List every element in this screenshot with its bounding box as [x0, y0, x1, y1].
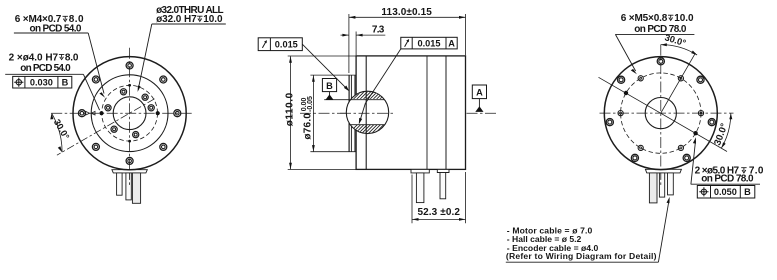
svg-text:on PCD 54.0: on PCD 54.0 [20, 63, 71, 74]
svg-text:6 ×M5×0.8: 6 ×M5×0.8 [621, 13, 668, 24]
label 2xdia4 leader [83, 74, 99, 110]
counterbore hole right view 40deg [697, 76, 704, 83]
M5 hole right view 180deg [618, 111, 623, 116]
diagonal through dowels 150-330 [599, 77, 728, 151]
junction dots on dashed circle top/bottom [128, 84, 131, 87]
underline second label [5, 73, 83, 75]
boss step lines [351, 75, 355, 151]
counterbore hole right view 90deg [657, 58, 664, 65]
underline note [506, 261, 659, 263]
counterbore hole right view 240deg [631, 154, 638, 161]
label dia32 leader [139, 24, 152, 87]
M5 hole right view 120deg [638, 76, 643, 81]
PCD78 dashed circle right view [621, 73, 701, 153]
cable gland plate right view [645, 169, 681, 173]
svg-text:on PCD 78.0: on PCD 78.0 [634, 24, 687, 35]
centerline horizontal middle view [300, 112, 497, 114]
boss circle dia76 left view [91, 75, 168, 152]
svg-text:ø32.0 H7: ø32.0 H7 [156, 14, 197, 25]
encoder cable middle view [440, 173, 446, 199]
centerline horizontal left view [51, 112, 193, 114]
hall cable left view [117, 173, 123, 195]
datum B [322, 79, 336, 100]
svg-text:52.3 ±0.2: 52.3 ±0.2 [417, 207, 460, 218]
svg-text:8.0: 8.0 [65, 52, 79, 63]
svg-text:A: A [476, 88, 483, 98]
centerline vertical left view [129, 48, 131, 187]
extension lines 113 dim [349, 14, 466, 73]
counterbore hole left view 135deg [92, 76, 99, 83]
svg-text:0.030: 0.030 [30, 78, 53, 88]
svg-text:ø76.0: ø76.0 [303, 113, 314, 140]
encoder cable right view [659, 173, 664, 197]
svg-text:A: A [448, 38, 455, 48]
svg-text:10.0: 10.0 [674, 13, 694, 24]
angular dimension arc 30deg left view [52, 113, 63, 152]
centerline horizontal right view [600, 112, 734, 114]
svg-text:0.050: 0.050 [714, 187, 737, 197]
underline top right label [615, 33, 694, 35]
M5 hole right view 240deg [638, 145, 643, 150]
label 6xM4 leader [88, 33, 104, 94]
counterbore hole right view -60deg [683, 154, 690, 161]
housing joint line 2 [445, 56, 447, 169]
radial 60deg [661, 53, 696, 113]
bore circle right view [645, 98, 676, 129]
bore bottom line [350, 124, 385, 126]
datum A [472, 85, 486, 112]
centerline segment over left cables [129, 173, 131, 187]
open arrowheads near left dowel [86, 111, 90, 115]
centerline segment over right cables [660, 173, 662, 186]
svg-text:B: B [62, 78, 69, 88]
boss front face line dia76 [348, 75, 350, 151]
body outline middle view [356, 56, 465, 169]
counterbore hole left view 45deg [160, 76, 167, 83]
svg-text:0.015: 0.015 [418, 38, 441, 48]
encoder cable left view [126, 173, 131, 200]
cable gland plate middle view [411, 169, 429, 173]
M4 hole left view 166deg [105, 105, 111, 111]
hall cable right view [649, 173, 657, 203]
svg-text:ø110.0: ø110.0 [284, 92, 295, 126]
feature frame position 0.050 B [697, 186, 755, 199]
counterbore hole right view 190deg [606, 119, 613, 126]
bore top line + datum B extension [324, 99, 384, 101]
dowel hole dia4 left view 180deg [99, 111, 103, 115]
M4 hole left view 286deg [133, 132, 139, 138]
motor cable left view [132, 173, 140, 203]
counterbore hole left view 270deg [126, 157, 133, 164]
cable gland plate left view [112, 170, 147, 173]
svg-text:-0.05: -0.05 [307, 96, 314, 112]
feature control frame position 0.030 B [13, 76, 72, 88]
motor cable right view [668, 173, 674, 195]
dowel hole dia5 right view 150deg [624, 91, 628, 95]
dim dia76.0 [312, 75, 314, 151]
M4 hole left view 46deg [142, 94, 148, 100]
counterbore hole left view 0deg [174, 110, 181, 117]
underline right label [691, 183, 760, 185]
bore circle dia32 left view [113, 97, 146, 130]
angular arc 30deg top right view [661, 45, 697, 55]
PCD54 dashed circle left view [102, 85, 158, 141]
label 2xdia5.0 leader [691, 141, 696, 184]
M4 hole left view 106deg [120, 89, 126, 95]
dowel hole dia4 left view 0deg [156, 111, 160, 115]
dowel hole dia5 right view 330deg [693, 131, 697, 135]
leader from right runout frame [360, 49, 401, 121]
counterbore hole right view 140deg [618, 76, 625, 83]
angular arc 30deg right side right view [721, 113, 730, 148]
centerline vertical right view [660, 45, 662, 187]
svg-text:113.0±0.15: 113.0±0.15 [381, 7, 432, 18]
counterbore hole left view 225deg [92, 143, 99, 150]
counterbore hole left view 90deg [126, 62, 133, 69]
underline dia32 label [152, 23, 226, 25]
label 6xM5 leader [615, 34, 635, 71]
leader from left runout frame [302, 44, 347, 89]
counterbore hole right view -10deg [708, 119, 715, 126]
motor cable middle view [416, 173, 424, 203]
svg-text:2 ×ø4.0 H7: 2 ×ø4.0 H7 [9, 52, 59, 63]
M4 hole left view -14deg [148, 105, 154, 111]
M5 hole right view 60deg [678, 76, 683, 81]
svg-text:(Refer to Wiring Diagram for D: (Refer to Wiring Diagram for Detail) [506, 251, 657, 261]
outer flange circle left view [73, 57, 186, 170]
30 degree dashed diagonal [57, 99, 155, 155]
outer circle right view [604, 57, 717, 170]
svg-text:on PCD 78.0: on PCD 78.0 [701, 174, 754, 185]
centerline through section [340, 112, 395, 114]
svg-text:B: B [744, 187, 751, 197]
svg-text:10.0: 10.0 [203, 14, 223, 25]
hatch bands [336, 78, 418, 146]
underline top-left label [14, 32, 88, 34]
housing joint line 1 [426, 56, 428, 169]
M5 hole right view 300deg [678, 145, 683, 150]
M4 hole left view 226deg [111, 126, 117, 132]
feature frame runout 0.015 A (right) [401, 37, 457, 49]
svg-text:7.3: 7.3 [372, 24, 385, 35]
section detail circle [346, 91, 388, 133]
counterbore hole left view 180deg [78, 110, 85, 117]
svg-text:0.015: 0.015 [275, 40, 298, 50]
dim dia110.0 [290, 56, 292, 169]
M5 hole right view 0deg [698, 111, 703, 116]
feature frame runout 0.015 (left) [258, 38, 302, 51]
flange back line [365, 56, 367, 169]
svg-text:B: B [326, 81, 333, 91]
counterbore hole left view 315deg [160, 143, 167, 150]
housing step line through section circle [365, 91, 367, 133]
cable note leader [658, 200, 669, 262]
